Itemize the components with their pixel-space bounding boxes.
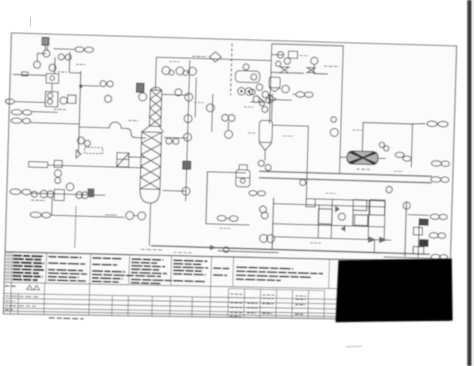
- instrument on cw line: [386, 186, 393, 193]
- tag text right of valve: [324, 65, 339, 67]
- wire cluster interconnects: [270, 55, 329, 123]
- right upper instrument cluster: [276, 51, 298, 67]
- scattered small label smudges: [104, 50, 406, 246]
- manifold left riser: [272, 198, 273, 249]
- black redaction rectangle (axis aligned, unrotated): [336, 259, 453, 323]
- wire cooling water return: [259, 178, 432, 183]
- sheet border frame: [3, 33, 456, 327]
- cw end tag ovals row1: [431, 160, 449, 166]
- instrument top of letdown: [403, 202, 410, 209]
- wire bottoms run: [151, 246, 430, 255]
- left tag rectangle: [29, 162, 144, 171]
- instruments near drum E2: [243, 64, 257, 80]
- tag ovals right: [296, 92, 313, 98]
- manifold valve box 1: [318, 209, 332, 224]
- feed tag ovals row2: [11, 118, 31, 124]
- mid small cluster: [217, 215, 238, 221]
- junction instrument: [331, 117, 337, 123]
- column T1 bottom head: [140, 189, 160, 204]
- pump pair P2: [260, 234, 275, 242]
- manifold valve box 4: [370, 200, 385, 216]
- drawing number note below frame: [49, 318, 84, 319]
- valve on feed riser: [76, 150, 81, 158]
- right network riser2: [340, 46, 344, 174]
- scan artifact tick top-left: [29, 17, 32, 26]
- cluster on mid-left line: [54, 160, 63, 183]
- tag ovals right of strainer: [249, 190, 266, 195]
- instrument cluster left of V2: [249, 84, 271, 113]
- wire reboiler return: [162, 189, 185, 192]
- left frame tag oval: [5, 99, 45, 105]
- instrument right of V2: [282, 85, 290, 93]
- mid-left instrument cluster: [45, 92, 76, 110]
- dashed tag box on feed: [85, 147, 103, 154]
- letdown valve chain: [413, 218, 429, 254]
- bottom-right letdown riser: [405, 202, 407, 256]
- instrument on branch riser: [206, 104, 214, 112]
- letdown tag ovals row2: [429, 233, 446, 239]
- wire bottom product run: [296, 237, 391, 252]
- wire bottom run above titleblock: [384, 257, 432, 258]
- zone strip column: [4, 252, 12, 283]
- second bottoms line: [218, 251, 279, 253]
- wire top run to right network: [156, 57, 271, 60]
- diagram / title-block divider wire: [5, 249, 450, 265]
- manifold valve box 2: [353, 200, 367, 211]
- small horizontal drum E2: [235, 71, 260, 83]
- bottom-left train instruments: [31, 182, 95, 202]
- wire V1 to manifold riser: [270, 125, 308, 199]
- control valve with actuator: [307, 57, 318, 73]
- instrument on reflux line: [175, 89, 182, 96]
- wire lower-left stub riser: [75, 206, 76, 248]
- branch with tag circles: [79, 80, 113, 102]
- wire pump discharge: [275, 236, 299, 239]
- cw end tag ovals row2: [431, 176, 449, 182]
- scan dark stripe right edge: [467, 0, 471, 366]
- header band text rows col2: [48, 257, 88, 282]
- manifold small valve marks: [305, 199, 346, 232]
- filter box with diagonal: [117, 153, 129, 167]
- instrument pair beside column: [166, 138, 179, 144]
- wire letdown branch to tags: [408, 214, 429, 217]
- instruments under V1: [258, 160, 271, 170]
- loop outlet arrow to tags: [413, 123, 426, 124]
- faint scan smudge below sheet: [346, 346, 362, 347]
- bottom-left train ovals: [10, 189, 31, 195]
- revision band column dividers: [10, 280, 432, 326]
- header band text rows col3: [92, 258, 162, 283]
- instrument under hatched box: [139, 93, 147, 101]
- letdown tag ovals row1: [430, 214, 447, 220]
- arrow on bottoms run: [210, 245, 217, 250]
- wire cooling water supply: [259, 171, 432, 176]
- header band text rows left: [12, 256, 44, 281]
- instrument riser lower: [206, 172, 251, 225]
- E1 vent instruments: [379, 142, 389, 151]
- letdown chain riser wire: [418, 218, 419, 257]
- revision band cell text smudges: [5, 287, 307, 318]
- instrument TI on riser: [184, 115, 192, 123]
- wire feed riser: [78, 71, 80, 154]
- junction instrument 2: [330, 128, 338, 136]
- small drum V2 with cone: [269, 77, 280, 92]
- column T1 narrow top section: [149, 87, 162, 126]
- feed tag ovals row1: [11, 109, 58, 116]
- revision triangle marks: [5, 284, 40, 290]
- manifold valve box 3: [354, 215, 368, 226]
- bottoms label text: [141, 248, 164, 251]
- exchanger E1 hatched: [339, 151, 386, 165]
- valve pair on lower row: [126, 211, 146, 220]
- column T1 label: [129, 119, 139, 121]
- lower tag ovals row: [30, 196, 125, 220]
- wire feed to column: [79, 121, 147, 138]
- wire column bottoms outlet: [149, 203, 150, 245]
- column T1 wide section: [140, 132, 162, 190]
- top-left instrument cluster: [12, 45, 85, 93]
- wire bottom-left train: [31, 193, 105, 195]
- wire feed header: [30, 123, 78, 124]
- dashed battery-limit riser: [231, 43, 233, 95]
- instrument riser line: [186, 60, 197, 201]
- bottoms label text2: [174, 251, 192, 254]
- top-left dark tag squares: [42, 37, 49, 50]
- wire top-right header: [272, 44, 344, 46]
- wire reflux line to column: [162, 93, 189, 96]
- pump pair P1: [237, 87, 252, 95]
- wire column overhead: [154, 57, 157, 90]
- wire side draw: [164, 136, 187, 139]
- control box on riser: [183, 161, 191, 169]
- recycle loop wires: [362, 122, 413, 167]
- instrument LI on riser: [183, 133, 191, 141]
- wire branch riser: [212, 94, 213, 132]
- circles below battery limit: [221, 114, 235, 138]
- manifold instrument2: [300, 179, 306, 185]
- wire right-network riser: [269, 44, 271, 124]
- instrument on bottoms run: [223, 247, 229, 253]
- instrument PI on riser: [182, 187, 190, 195]
- manifold instruments left: [259, 206, 268, 219]
- wire filter to column: [127, 156, 145, 159]
- header band text rows col5: [173, 260, 229, 275]
- header band text right section: [236, 267, 323, 282]
- E1 label text: [357, 168, 370, 170]
- E1 tag ovals: [395, 152, 411, 161]
- strainer pot on reboiler line: [236, 165, 251, 187]
- header band column dividers: [46, 251, 330, 292]
- revision band horizontal rules: [3, 278, 449, 324]
- loop tag ovals: [427, 121, 448, 127]
- separator V1 vessel: [258, 120, 272, 160]
- column T1 transition: [142, 126, 164, 133]
- manifold instrument: [338, 213, 345, 220]
- diamond symbol on top run: [209, 52, 221, 62]
- manifold interconnect wires: [272, 198, 385, 240]
- header band text rows col4: [131, 259, 206, 285]
- tag ovals top-left: [53, 46, 93, 52]
- instrument on feed riser: [77, 137, 84, 144]
- top run label: [192, 55, 206, 57]
- letdown tag ovals row3: [431, 254, 448, 260]
- arrows on bottom product run: [368, 236, 387, 243]
- condenser instrument row: [162, 66, 197, 76]
- instrument FI on riser: [185, 93, 193, 101]
- valve on riser: [280, 67, 289, 73]
- accumulator hatched box: [136, 83, 144, 92]
